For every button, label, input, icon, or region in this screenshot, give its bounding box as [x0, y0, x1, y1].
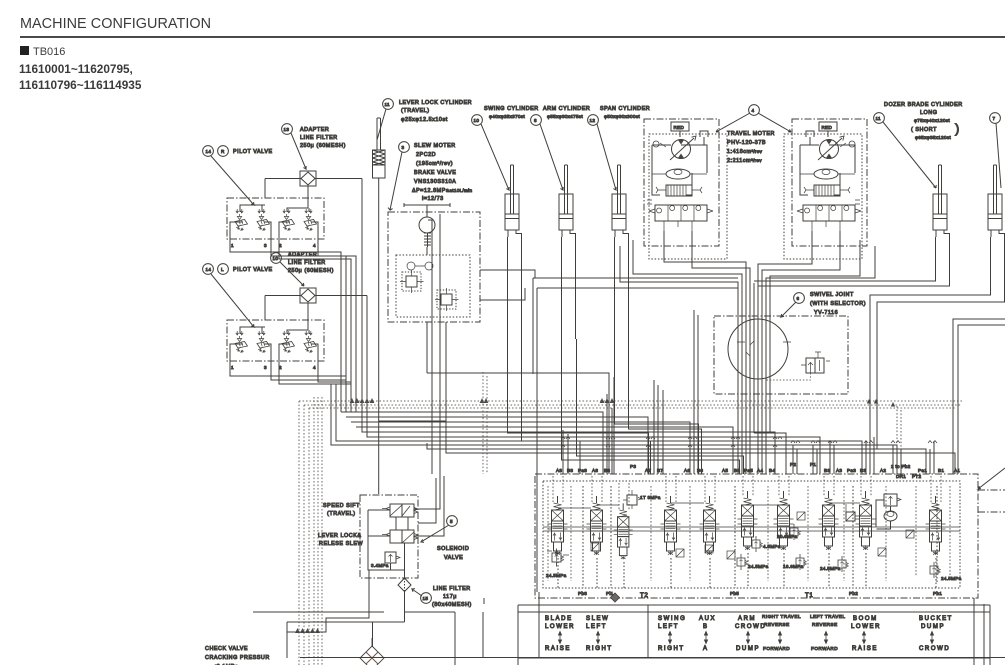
svg-text:RED: RED: [674, 125, 685, 130]
svg-text:BOOM: BOOM: [853, 616, 878, 622]
relief 4.5MPa arm top: [752, 536, 781, 552]
svg-text:FORWARD: FORWARD: [763, 646, 790, 651]
svg-text:): ): [955, 121, 959, 136]
spool swing: [661, 496, 681, 555]
svg-text:(WITH SELECTOR): (WITH SELECTOR): [810, 301, 866, 307]
svg-text:REVERSE: REVERSE: [764, 622, 790, 627]
svg-text:LEFT: LEFT: [586, 624, 607, 630]
wire junction arrows on bundle: [295, 398, 614, 633]
pilot valve block R: [227, 198, 324, 239]
wire manifold feed verticals left: [603, 394, 612, 474]
svg-text:PHV-120-37B: PHV-120-37B: [727, 140, 766, 146]
svg-text:Pa5: Pa5: [744, 468, 753, 473]
spool left travel: [819, 491, 839, 550]
pilot valve L label: [203, 264, 273, 327]
svg-text:8: 8: [534, 118, 537, 123]
wire slew to swivel top line: [427, 322, 614, 474]
svg-text:LINE FILTER: LINE FILTER: [300, 135, 338, 141]
dozer brade cylinder label: [874, 102, 963, 188]
svg-text:CROWD: CROWD: [919, 646, 950, 652]
svg-text:10: 10: [273, 256, 279, 261]
wire pilot L ports down: [230, 362, 351, 384]
span cylinder label: [588, 106, 651, 190]
span cylinder: [612, 165, 629, 241]
svg-text:CRACKING PRESSUR: CRACKING PRESSUR: [205, 655, 270, 661]
svg-text:BLADE: BLADE: [545, 616, 573, 622]
swing cylinder: [505, 165, 522, 241]
svg-text:250μ (60MESH): 250μ (60MESH): [300, 143, 346, 149]
svg-text:SLEW MOTER: SLEW MOTER: [414, 143, 456, 149]
svg-text:250μ (60MESH): 250μ (60MESH): [288, 268, 334, 274]
model label TB016: [20, 46, 65, 58]
svg-text:LEVER LOCK&: LEVER LOCK&: [318, 533, 362, 539]
svg-text:RIGHT TRAVEL: RIGHT TRAVEL: [762, 614, 801, 619]
svg-text:4.5MPa: 4.5MPa: [763, 544, 781, 549]
svg-text:A6: A6: [684, 468, 690, 473]
svg-text:ΔP=12.8MPaat10L/min: ΔP=12.8MPaat10L/min: [412, 188, 472, 194]
speed shift solenoid block: [360, 495, 418, 618]
svg-text:SOLENOID: SOLENOID: [437, 546, 469, 552]
wire span cylinder drops: [615, 237, 702, 474]
wire dotted pilot bundle horizontals: [299, 372, 962, 665]
swivel joint label: [781, 292, 866, 317]
serial numbers: [19, 62, 141, 93]
svg-text:VALVE: VALVE: [444, 555, 463, 561]
spool blade: [548, 496, 568, 555]
svg-text:14: 14: [206, 149, 212, 154]
svg-text:LONG: LONG: [920, 110, 937, 116]
speed shift labels: [318, 503, 363, 547]
wire travel motor right outputs: [758, 231, 840, 283]
svg-text:ADAPTER: ADAPTER: [288, 252, 317, 258]
check valve label: [205, 646, 270, 665]
svg-text:SLEW: SLEW: [586, 616, 609, 622]
svg-text:SWING: SWING: [658, 616, 686, 622]
svg-text:14: 14: [206, 267, 212, 272]
svg-text:7: 7: [993, 116, 996, 121]
svg-text:LINE FILTER: LINE FILTER: [433, 586, 471, 592]
relief bucket 24.5MPa: [930, 562, 962, 581]
svg-text:4: 4: [313, 365, 316, 370]
wire speed shift connections: [414, 474, 444, 536]
spool right travel: [774, 491, 794, 550]
wire pilot R ports down: [230, 240, 356, 412]
svg-text:1: 1: [231, 365, 234, 370]
svg-text:11: 11: [876, 116, 882, 121]
relief valve arm 24.5MPa: [737, 554, 769, 570]
wire below manifold: [518, 605, 990, 612]
wire pump risers bottom: [404, 598, 484, 665]
title rule: [20, 36, 1005, 38]
relief boom 24.5MPa: [820, 556, 848, 572]
relief valve blade 24.5MPa: [546, 549, 569, 579]
svg-text:12: 12: [590, 118, 596, 123]
svg-text:( SHORT: ( SHORT: [911, 127, 937, 133]
arm cylinder label: [531, 106, 591, 190]
wire slew block risers: [379, 322, 446, 421]
svg-text:24.5MPa: 24.5MPa: [820, 566, 841, 571]
wire swivel to manifold spread: [754, 433, 786, 474]
svg-text:R: R: [221, 149, 225, 154]
wire bottom left staircase: [287, 592, 405, 632]
svg-text:Pb8: Pb8: [578, 591, 587, 596]
svg-text:φ65xφ35x120st: φ65xφ35x120st: [915, 135, 951, 140]
svg-text:φ55xφ30x475st: φ55xφ30x475st: [547, 114, 583, 119]
svg-text:11: 11: [385, 102, 391, 107]
wire right dotted arrows: [867, 399, 895, 407]
svg-text:Pa8: Pa8: [578, 468, 587, 473]
svg-text:SWIVEL JOINT: SWIVEL JOINT: [810, 292, 854, 298]
swivel joint block: [714, 316, 848, 394]
svg-text:YV-7116: YV-7116: [814, 310, 838, 316]
svg-text:ARM CYLINDER: ARM CYLINDER: [543, 106, 590, 112]
bottom function labels: [545, 614, 953, 652]
svg-text:VNS130S310A: VNS130S310A: [414, 179, 456, 185]
wire right side to manifold: [978, 490, 1005, 512]
wire swivel bundle verticals: [738, 283, 770, 474]
svg-text:RELESE SLEW: RELESE SLEW: [319, 541, 363, 547]
svg-text:A8: A8: [592, 468, 598, 473]
svg-text:DR1: DR1: [896, 474, 906, 479]
swing cylinder label: [472, 106, 539, 190]
svg-text:RIGHT: RIGHT: [586, 646, 613, 652]
svg-text:LOWER: LOWER: [545, 624, 575, 630]
svg-text:1: 1: [231, 243, 234, 248]
svg-text:4: 4: [313, 243, 316, 248]
svg-text:SPEED SIFT: SPEED SIFT: [323, 503, 360, 509]
relief 20.6MPa travel: [777, 524, 800, 540]
wire manifold leader arrow: [978, 468, 1005, 489]
dozer cylinder 2: [988, 165, 1005, 241]
svg-text:LEFT: LEFT: [658, 624, 679, 630]
manifold inter-spool links: [558, 503, 860, 508]
svg-text:TRAVEL MOTER: TRAVEL MOTER: [727, 131, 775, 137]
svg-text:24.5MPa: 24.5MPa: [748, 564, 769, 569]
svg-text:B: B: [703, 624, 709, 630]
svg-text:CROWD: CROWD: [735, 624, 766, 630]
svg-text:Pb5: Pb5: [730, 591, 739, 596]
svg-text:2PC2D: 2PC2D: [416, 152, 436, 158]
svg-text:φ25xφ12.5x10st: φ25xφ12.5x10st: [401, 117, 448, 123]
travel motor label circle 4: [716, 105, 791, 132]
svg-text:L: L: [221, 267, 224, 272]
svg-text:(TRAVEL): (TRAVEL): [327, 511, 356, 517]
wire dozer cylinder 2 west: [870, 237, 1005, 449]
svg-text:DOZER BRADE CYLINDER: DOZER BRADE CYLINDER: [884, 102, 963, 108]
spool arm: [738, 491, 758, 550]
svg-text:SPAN CYLINDER: SPAN CYLINDER: [600, 106, 650, 112]
svg-text:RAISE: RAISE: [545, 646, 571, 652]
wire swing cylinder drops: [508, 237, 651, 474]
svg-text:(195cm³/rev): (195cm³/rev): [416, 161, 453, 167]
spool small P3: [614, 503, 633, 559]
svg-text:20.6MPa: 20.6MPa: [777, 534, 798, 539]
svg-text:3.4MPa: 3.4MPa: [371, 563, 389, 568]
svg-text:2:211cm³/rev: 2:211cm³/rev: [727, 158, 762, 164]
svg-text:A5: A5: [722, 468, 728, 473]
svg-text:Pb2: Pb2: [849, 591, 858, 596]
svg-text:3: 3: [402, 145, 405, 150]
wire travel motor left outputs: [664, 231, 750, 283]
travel motor left: [644, 119, 727, 259]
wire manifold internal dotted drops: [558, 486, 937, 588]
svg-text:T2: T2: [640, 592, 648, 599]
dozer cylinder 1: [933, 165, 950, 241]
wire arm cylinder drops: [562, 237, 576, 339]
lever lock cylinder: [373, 118, 386, 494]
wire west horizontals to swivel: [533, 278, 738, 592]
svg-text:PILOT VALVE: PILOT VALVE: [233, 149, 273, 155]
pilot valve block L: [227, 320, 324, 361]
svg-text:19.6MPa: 19.6MPa: [783, 564, 804, 569]
travel moter text: [727, 131, 775, 164]
arm cylinder: [559, 165, 576, 241]
svg-text:ADAPTER: ADAPTER: [300, 127, 329, 133]
junction chevrons on bundle: [561, 437, 937, 448]
svg-text:LEFT TRAVEL: LEFT TRAVEL: [810, 614, 845, 619]
circle 7 label: [990, 113, 1001, 188]
wire bottom right frame: [518, 598, 990, 665]
svg-text:10: 10: [474, 118, 480, 123]
adapter line filter 2: [265, 252, 367, 417]
title MACHINE CONFIGURATION: [20, 16, 211, 32]
wire dozer cylinder 1 to swivel: [754, 237, 950, 286]
svg-text:B4: B4: [769, 468, 775, 473]
svg-text:3: 3: [264, 365, 267, 370]
relief 19.6MPa travel2: [783, 554, 806, 570]
svg-text:AUX: AUX: [699, 616, 716, 622]
slew motor block: [388, 212, 480, 322]
svg-text:LEVER LOCK CYLINDER: LEVER LOCK CYLINDER: [399, 100, 472, 106]
main control valve block outline: [535, 474, 978, 598]
svg-text:SWING CYLINDER: SWING CYLINDER: [484, 106, 539, 112]
svg-text:6: 6: [797, 296, 800, 301]
svg-text:13: 13: [284, 127, 290, 132]
svg-text:BRAKE VALVE: BRAKE VALVE: [414, 170, 456, 176]
svg-text:(80x40MESH): (80x40MESH): [432, 602, 472, 608]
lever lock cylinder label: [377, 99, 472, 140]
svg-text:i=12/73: i=12/73: [422, 196, 444, 202]
svg-text:Pa3: Pa3: [847, 468, 856, 473]
adapter line filter 1: [265, 124, 362, 412]
svg-text:(TRAVEL): (TRAVEL): [401, 108, 430, 114]
line filter 15: [398, 571, 472, 608]
svg-text:24.5MPa: 24.5MPa: [546, 573, 567, 578]
svg-text:1:418cm³/rev: 1:418cm³/rev: [727, 149, 763, 155]
svg-text:φ50xφ30x300st: φ50xφ30x300st: [604, 114, 640, 119]
svg-text:PT2: PT2: [912, 474, 921, 479]
svg-text:LOWER: LOWER: [851, 624, 881, 630]
spool aux: [700, 496, 720, 555]
pilot valve R label: [203, 146, 273, 205]
wire travel outer brackets: [620, 246, 875, 290]
small box 1T 8MPa: [623, 490, 661, 509]
check valve: [360, 638, 384, 665]
svg-text:REVERSE: REVERSE: [812, 622, 838, 627]
svg-text:B1: B1: [938, 468, 944, 473]
wire right bundles above manifold: [793, 445, 817, 474]
svg-text:A: A: [703, 646, 709, 652]
spool boom: [856, 491, 876, 550]
svg-text:1T 8MPa: 1T 8MPa: [640, 495, 661, 500]
svg-text:A8: A8: [556, 468, 562, 473]
svg-text:RIGHT: RIGHT: [658, 646, 685, 652]
wire bottom horizontals2: [253, 612, 384, 658]
svg-text:B3: B3: [860, 468, 866, 473]
svg-text:Pb1: Pb1: [933, 591, 942, 596]
svg-text:3: 3: [264, 243, 267, 248]
manifold internal dotted verticals: [548, 406, 950, 581]
svg-text:PILOT VALVE: PILOT VALVE: [233, 267, 273, 273]
travel motor right: [784, 119, 867, 259]
svg-text:24.5MPa: 24.5MPa: [941, 576, 962, 581]
wire pilot bundle elbows east: [341, 412, 733, 474]
svg-text:DUMP: DUMP: [921, 624, 945, 630]
port labels bottom: [578, 591, 942, 602]
svg-text:15: 15: [423, 596, 429, 601]
slew motor label: [388, 142, 472, 210]
svg-text:RED: RED: [822, 125, 833, 130]
DR1 PT2 cluster: [846, 494, 901, 529]
svg-text:A3: A3: [836, 468, 842, 473]
svg-text:T1: T1: [805, 592, 813, 599]
svg-text:RAISE: RAISE: [852, 646, 878, 652]
svg-text:5: 5: [450, 519, 453, 524]
wire right side verticals low: [866, 445, 958, 474]
wire right edge feeds: [953, 319, 1005, 449]
aux small squares in manifold: [591, 512, 914, 559]
spool bucket: [926, 496, 946, 555]
svg-text:P3: P3: [630, 464, 636, 469]
svg-text:B3: B3: [824, 468, 830, 473]
svg-text:117μ: 117μ: [443, 594, 457, 600]
function arrows: [558, 631, 934, 645]
svg-text:A2: A2: [880, 468, 886, 473]
svg-text:φ40xφ25x370st: φ40xφ25x370st: [489, 114, 525, 119]
selector valve in swivel: [767, 352, 831, 380]
svg-text:φ75xφ40x120st: φ75xφ40x120st: [914, 118, 950, 123]
port labels top: [556, 462, 960, 479]
svg-text:FORWARD: FORWARD: [811, 646, 838, 651]
svg-text:DUMP: DUMP: [736, 646, 760, 652]
svg-text:BUCKET: BUCKET: [919, 616, 953, 622]
svg-text:LINE FILTER: LINE FILTER: [288, 260, 326, 266]
svg-text:CHECK VALVE: CHECK VALVE: [205, 646, 248, 652]
svg-text:ARM: ARM: [738, 616, 756, 622]
svg-text:4: 4: [752, 108, 755, 113]
solenoid valve label: [421, 516, 469, 561]
spool slew: [587, 496, 607, 555]
